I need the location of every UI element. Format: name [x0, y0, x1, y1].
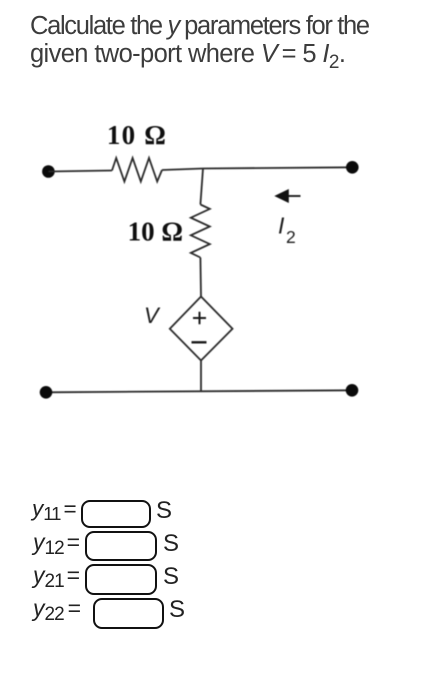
svg-text:I: I [278, 213, 285, 239]
plus sign [193, 312, 206, 325]
svg-text:10 Ω: 10 Ω [107, 120, 167, 150]
current arrow I2 [289, 195, 301, 197]
svg-text:2: 2 [286, 227, 296, 247]
wire node A to top-right terminal [203, 167, 352, 168]
svg-text:10 Ω: 10 Ω [128, 217, 183, 247]
problem statement [30, 12, 369, 77]
answer row y21 [33, 562, 80, 589]
wire R1 to node A [162, 169, 203, 171]
top-left terminal dot [42, 165, 55, 178]
wire node A down to resistor R2 [200, 169, 203, 205]
answer row y12 [33, 529, 80, 556]
resistor R1 10 ohm horizontal [112, 158, 162, 182]
wire source to bottom [200, 361, 202, 391]
dependent source V diamond [170, 297, 233, 361]
bottom wire [46, 390, 352, 392]
wire R2 to dependent source [199, 258, 202, 297]
svg-text:V: V [144, 303, 161, 328]
minus sign [192, 341, 207, 343]
answer row y11 [32, 496, 77, 522]
resistor R2 10 ohm vertical [191, 205, 210, 258]
bottom-right terminal dot [346, 384, 359, 397]
wire top-left to resistor R1 [48, 171, 112, 172]
top-right terminal dot [346, 161, 359, 174]
bottom-left terminal dot [40, 386, 53, 399]
answer row y22 [33, 595, 81, 622]
